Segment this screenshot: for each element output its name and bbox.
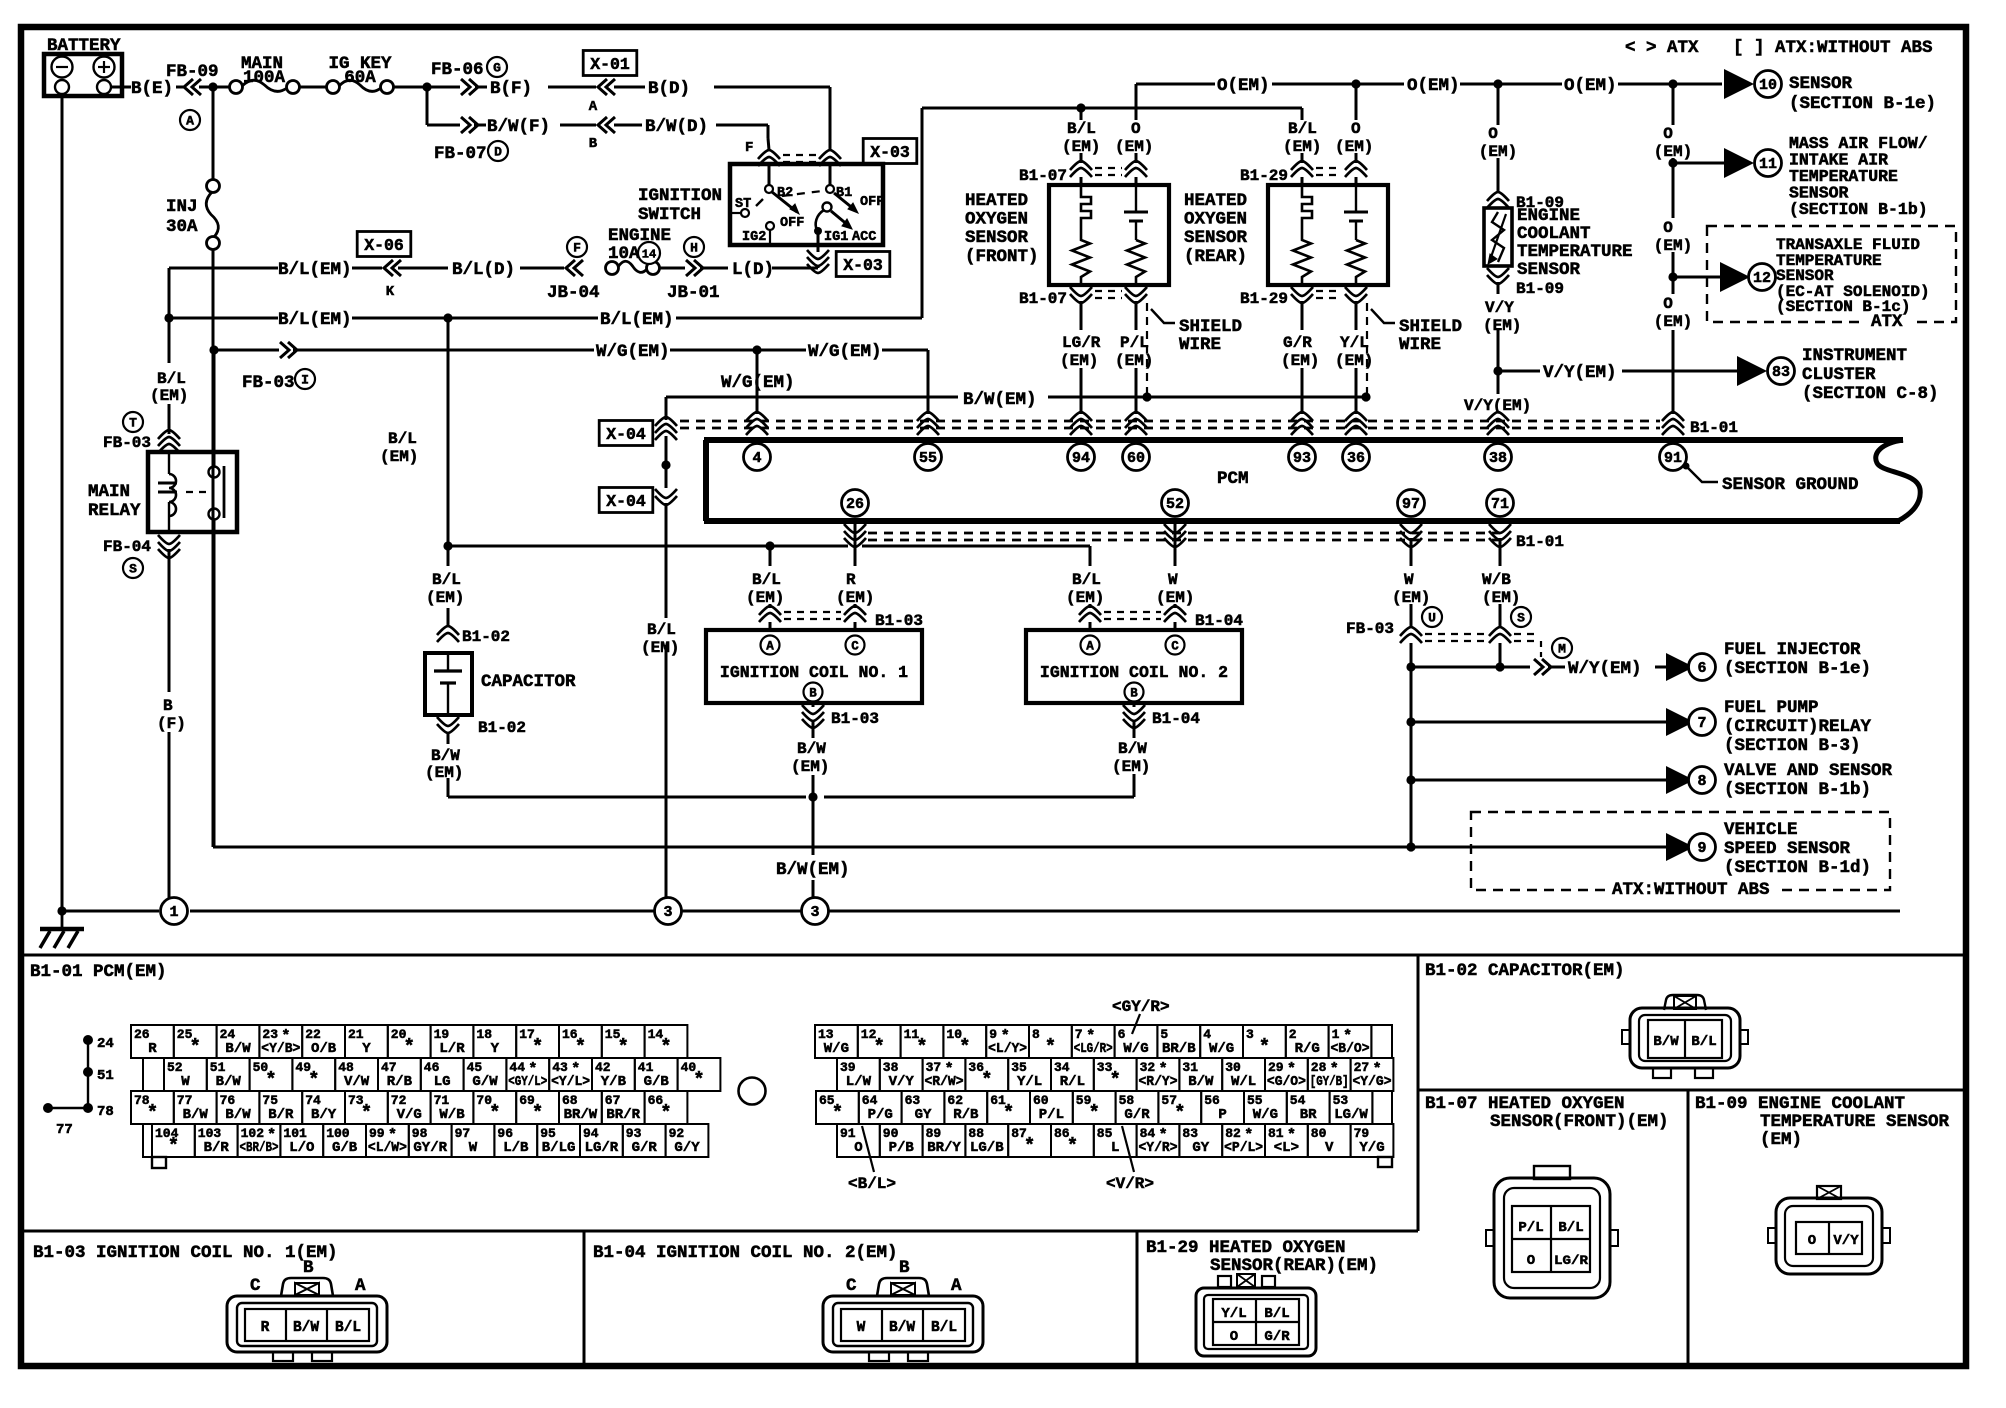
PCM pin chevron 60: [1125, 412, 1147, 435]
terminal G circle: [487, 57, 507, 77]
svg-text:SENSOR(REAR)(EM): SENSOR(REAR)(EM): [1210, 1256, 1378, 1276]
svg-text:*: *: [575, 1036, 586, 1058]
svg-text:B/L(EM): B/L(EM): [278, 260, 352, 280]
svg-text:W/Y(EM): W/Y(EM): [1568, 659, 1642, 679]
svg-text:X-04: X-04: [606, 425, 646, 444]
svg-text:7: 7: [1697, 715, 1706, 732]
terminal M circle: [1552, 638, 1572, 658]
junction dot FB-09: [208, 82, 217, 91]
wire V/Y pin38 drop: [1497, 371, 1500, 394]
connector FB-03 chevron: [280, 342, 297, 358]
svg-text:IGNITION: IGNITION: [638, 186, 722, 206]
wire ECT drop: [1497, 84, 1500, 125]
svg-text:71: 71: [434, 1093, 450, 1108]
svg-text:[GY/B]: [GY/B]: [1310, 1074, 1349, 1090]
wire branch to B/W row: [426, 87, 429, 125]
svg-text:SHIELD: SHIELD: [1179, 317, 1242, 337]
svg-text:3: 3: [810, 904, 819, 921]
wire capacitor drop: [447, 546, 450, 566]
wire B/W shield rail: [666, 396, 958, 399]
svg-text:O(EM): O(EM): [1217, 76, 1270, 96]
svg-text:L/B: L/B: [503, 1140, 529, 1156]
svg-text:L: L: [1111, 1140, 1119, 1156]
wire B(D): [614, 86, 645, 89]
svg-text:W/G: W/G: [1253, 1107, 1278, 1123]
svg-text:JB-04: JB-04: [547, 283, 600, 303]
svg-text:*: *: [489, 1102, 500, 1124]
svg-text:*: *: [265, 1069, 276, 1091]
PCM connector right row 2: [837, 1058, 880, 1091]
svg-text:LG: LG: [434, 1074, 451, 1090]
svg-text:(EM): (EM): [1060, 352, 1098, 370]
svg-text:A: A: [589, 99, 598, 115]
arrow speed: [1666, 833, 1694, 861]
HO2S rear sense resistor R: [1347, 240, 1365, 285]
PCM bottom bus bar: [704, 518, 1900, 524]
svg-text:SPEED SENSOR: SPEED SENSOR: [1724, 839, 1851, 859]
svg-text:(EM): (EM): [1335, 138, 1373, 156]
svg-text:14: 14: [642, 248, 656, 262]
B1-04 connector lock bowtie: [891, 1283, 915, 1295]
svg-text:B/L(EM): B/L(EM): [278, 310, 352, 330]
svg-text:96: 96: [497, 1126, 513, 1141]
svg-text:B/L: B/L: [752, 571, 781, 589]
HO2S rear sense resistor L: [1293, 225, 1311, 285]
svg-text:23: 23: [262, 1027, 278, 1042]
svg-text:C: C: [1171, 640, 1179, 654]
svg-text:*: *: [959, 1036, 970, 1058]
svg-text:(EM): (EM): [380, 448, 418, 466]
svg-text:*: *: [873, 1036, 884, 1058]
svg-text:<Y/B>: <Y/B>: [261, 1041, 300, 1057]
svg-text:B/L: B/L: [1067, 120, 1096, 138]
svg-text:<GY/L>: <GY/L>: [508, 1074, 547, 1090]
svg-text:B/L: B/L: [157, 370, 186, 388]
svg-text:C: C: [846, 1276, 857, 1296]
svg-text:11: 11: [1759, 156, 1777, 173]
terminal circle 83: [1768, 358, 1795, 385]
connector FB-06 chevron: [461, 79, 478, 95]
svg-text:A: A: [951, 1276, 962, 1296]
svg-text:ENGINE: ENGINE: [608, 226, 671, 246]
svg-text:9: 9: [1697, 840, 1706, 857]
svg-text:IG2: IG2: [742, 230, 766, 245]
svg-text:WIRE: WIRE: [1179, 335, 1221, 355]
svg-text:(SECTION B-1d): (SECTION B-1d): [1724, 858, 1871, 878]
svg-text:3: 3: [663, 904, 672, 921]
switch pin IG1: [814, 227, 822, 235]
PCM pin 91: [1660, 444, 1687, 471]
svg-text:B/L: B/L: [1691, 1034, 1716, 1050]
ignition coil 1 pin C: [846, 636, 865, 655]
svg-text:28: 28: [1311, 1060, 1327, 1075]
svg-text:88: 88: [968, 1126, 984, 1141]
svg-text:29: 29: [1268, 1060, 1284, 1075]
terminal 14 circle: [638, 242, 660, 264]
terminal H circle: [684, 237, 704, 257]
svg-text:B1-29: B1-29: [1240, 167, 1288, 185]
svg-text:82: 82: [1225, 1126, 1241, 1141]
svg-text:BR: BR: [1300, 1107, 1317, 1123]
B1-09 ears: [1768, 1228, 1776, 1243]
svg-text:10A: 10A: [608, 244, 640, 264]
svg-text:B/Y: B/Y: [311, 1107, 337, 1123]
svg-text:(EM): (EM): [150, 387, 188, 405]
junction dot X-04: [661, 460, 670, 469]
PCM pin 38: [1485, 444, 1512, 471]
svg-text:C: C: [250, 1276, 261, 1296]
svg-text:B/W: B/W: [225, 1107, 251, 1123]
B1-04 connector bottom tabs: [869, 1352, 889, 1361]
divider B1-02 bottom: [1418, 1089, 1963, 1092]
svg-text:56: 56: [1204, 1093, 1220, 1108]
wire valve: [1411, 779, 1666, 782]
connector X-06 chevron: [384, 260, 401, 276]
svg-text:24: 24: [220, 1027, 236, 1042]
B1-02 lock bowtie: [1674, 996, 1696, 1009]
svg-text:SENSOR GROUND: SENSOR GROUND: [1722, 475, 1859, 495]
svg-text:(EM): (EM): [1112, 758, 1150, 776]
svg-text:O(EM): O(EM): [1407, 76, 1460, 96]
connector X-01 B chevron: [598, 117, 615, 133]
HO2S rear top chevrons: [1291, 161, 1313, 177]
svg-text:W: W: [181, 1074, 190, 1090]
svg-text:B/W(EM): B/W(EM): [776, 860, 850, 880]
PCM connector outer boundary: [143, 1058, 164, 1091]
svg-text:46: 46: [424, 1060, 440, 1075]
svg-text:*: *: [660, 1036, 671, 1058]
svg-text:*: *: [832, 1102, 843, 1124]
PCM lower dashed bus: [868, 532, 1500, 535]
junction dot shield front: [1142, 392, 1151, 401]
svg-text:(EM): (EM): [1115, 138, 1153, 156]
HO2S front shield pointer: [1151, 309, 1175, 323]
svg-text:X-01: X-01: [590, 55, 630, 74]
svg-text:B/L: B/L: [1264, 1306, 1289, 1322]
junction dot WY1: [1406, 662, 1415, 671]
wire B(F) ground leg: [168, 549, 171, 692]
svg-text:ENGINE: ENGINE: [1517, 206, 1580, 226]
svg-text:*: *: [1067, 1135, 1078, 1157]
PCM connector right row 1: [815, 1025, 858, 1058]
fuse IG KEY 60A: [327, 81, 340, 94]
svg-text:<R/Y>: <R/Y>: [1139, 1074, 1178, 1090]
svg-text:B/L: B/L: [931, 1320, 957, 1336]
svg-text:B/W: B/W: [797, 740, 826, 758]
wire W/B vertical: [1499, 643, 1502, 667]
wire W/G pin55 corner: [927, 350, 930, 414]
svg-text:G/R: G/R: [1264, 1329, 1290, 1345]
junction dot W/G pin4: [752, 345, 761, 354]
wire O right v1: [1672, 84, 1675, 125]
svg-text:FB-03: FB-03: [242, 373, 295, 393]
terminal F circle: [567, 237, 587, 257]
PCM pin chevron 71: [1489, 524, 1511, 547]
connector B1-02 chevron top: [437, 626, 459, 642]
svg-text:*: *: [147, 1102, 158, 1124]
wire O right v2: [1672, 163, 1675, 218]
svg-text:O: O: [1527, 1253, 1535, 1269]
wire B/W(F): [427, 124, 460, 127]
svg-text:<B/L>: <B/L>: [848, 1175, 896, 1193]
svg-text:W: W: [1168, 571, 1178, 589]
svg-text:O: O: [1808, 1233, 1816, 1249]
svg-text:90: 90: [883, 1126, 899, 1141]
svg-text:*: *: [1174, 1102, 1185, 1124]
svg-text:TEMPERATURE SENSOR: TEMPERATURE SENSOR: [1760, 1112, 1950, 1132]
svg-text:B/R: B/R: [204, 1140, 230, 1156]
svg-text:R/L: R/L: [1060, 1074, 1085, 1090]
svg-text:<G/O>: <G/O>: [1267, 1074, 1306, 1090]
svg-text:55: 55: [1247, 1093, 1263, 1108]
B1-02 ears: [1622, 1030, 1630, 1044]
svg-text:O: O: [1488, 125, 1498, 143]
svg-text:68: 68: [562, 1093, 578, 1108]
svg-text:V/Y: V/Y: [1833, 1233, 1859, 1249]
connector M chevron: [1534, 659, 1551, 675]
svg-text:41: 41: [638, 1060, 654, 1075]
svg-text:(SECTION B-1c): (SECTION B-1c): [1776, 298, 1910, 316]
svg-text:26: 26: [134, 1027, 150, 1042]
wire W down: [1410, 667, 1413, 847]
relay contact bottom: [209, 509, 220, 520]
svg-text:*: *: [168, 1135, 179, 1157]
svg-text:<BR/B>: <BR/B>: [240, 1140, 279, 1156]
svg-text:A: A: [186, 114, 194, 129]
arrow valve: [1666, 766, 1694, 794]
PCM pin chevron 93: [1291, 412, 1313, 435]
svg-text:S: S: [129, 562, 137, 577]
svg-text:27: 27: [1354, 1060, 1370, 1075]
wire B/L(EM) corner drop: [168, 268, 171, 318]
svg-text:B/W(F): B/W(F): [487, 117, 550, 137]
connector FB-04 chevron: [158, 535, 180, 558]
svg-text:B/W: B/W: [889, 1320, 915, 1336]
svg-text:77: 77: [56, 1122, 73, 1138]
connector FB-03 chevron U: [1400, 627, 1422, 643]
wire W/G pin4 drop: [756, 350, 759, 414]
svg-text:W/G(EM): W/G(EM): [596, 342, 670, 362]
svg-text:W/L: W/L: [1231, 1074, 1256, 1090]
svg-text:X-03: X-03: [843, 256, 883, 275]
wire pin97 drop: [1410, 538, 1413, 552]
svg-text:(EM): (EM): [1654, 237, 1692, 255]
terminal circle 10: [1755, 71, 1782, 98]
svg-text:OXYGEN: OXYGEN: [965, 210, 1028, 230]
svg-text:77: 77: [177, 1093, 193, 1108]
svg-text:63: 63: [905, 1093, 921, 1108]
svg-text:D: D: [494, 145, 502, 160]
svg-text:(CIRCUIT)RELAY: (CIRCUIT)RELAY: [1724, 717, 1872, 737]
PCM pin chevron 4: [746, 412, 768, 435]
connector X-04 box bottom: [599, 488, 653, 513]
svg-text:Y/B: Y/B: [601, 1074, 627, 1090]
terminal I circle: [295, 369, 315, 389]
wire B(E) battery feed: [111, 86, 131, 89]
wire capacitor to BW: [447, 732, 450, 744]
svg-text:93: 93: [1293, 450, 1311, 467]
svg-text:B: B: [589, 136, 598, 152]
svg-text:(SECTION B-1e): (SECTION B-1e): [1789, 94, 1936, 114]
junction dot shield rear: [1361, 392, 1370, 401]
svg-text:R/B: R/B: [387, 1074, 413, 1090]
HO2S front output wires: [1080, 301, 1083, 330]
divider coils top: [21, 1230, 1418, 1233]
svg-text:O: O: [1230, 1329, 1238, 1345]
ignition coil 1 box: [706, 630, 922, 703]
svg-text:62: 62: [947, 1093, 963, 1108]
divider B1-07/B1-09: [1687, 1090, 1690, 1364]
svg-text:101: 101: [283, 1126, 307, 1141]
PCM connector left row 2: [164, 1058, 207, 1091]
svg-text:1: 1: [1332, 1027, 1340, 1042]
svg-text:M: M: [1558, 642, 1566, 657]
svg-text:Y/L: Y/L: [1017, 1074, 1042, 1090]
ignition coil 1 pin B: [804, 683, 823, 702]
svg-text:Y: Y: [491, 1041, 500, 1057]
svg-text:*: *: [1045, 1036, 1056, 1058]
B1-07 cells: [1512, 1206, 1590, 1272]
svg-text:71: 71: [1491, 496, 1509, 513]
svg-text:Y/G: Y/G: [1359, 1140, 1384, 1156]
divider B1-04/B1-29: [1136, 1231, 1139, 1364]
svg-text:R: R: [261, 1320, 270, 1336]
connector X-03 box top: [863, 139, 917, 164]
svg-text:19: 19: [434, 1027, 450, 1042]
svg-text:B1-03: B1-03: [875, 612, 923, 630]
fuse ENGINE 10A: [606, 262, 619, 275]
svg-text:P/L: P/L: [1039, 1107, 1064, 1123]
svg-text:L/R: L/R: [439, 1041, 465, 1057]
svg-text:B/W(D): B/W(D): [645, 117, 708, 137]
wire X-04 riser: [665, 397, 668, 420]
svg-text:B: B: [809, 687, 817, 701]
junction dot B(F): [422, 82, 431, 91]
wire relay contact feed: [213, 350, 216, 467]
wire B/L(EM) heater rail: [922, 107, 1302, 110]
svg-text:B/W: B/W: [225, 1041, 251, 1057]
junction dot coil1 B/L: [765, 541, 774, 550]
connector X-04 chevron top: [655, 417, 677, 440]
svg-text:B1-02 CAPACITOR(EM): B1-02 CAPACITOR(EM): [1425, 961, 1625, 981]
wire O right v3: [1672, 277, 1675, 294]
svg-text:B1-01: B1-01: [1516, 533, 1564, 551]
svg-text:(F): (F): [157, 715, 186, 733]
ground terminal 3a: [655, 898, 682, 925]
svg-text:<L/Y>: <L/Y>: [988, 1041, 1027, 1057]
HO2S front cell capacitor: [1135, 185, 1137, 212]
ignition coil 1 top chevrons: [759, 606, 781, 622]
svg-text:99: 99: [369, 1126, 385, 1141]
svg-text:L/O: L/O: [289, 1140, 314, 1156]
wire B/L(EM) top row: [169, 267, 278, 270]
wire B/L coil rail: [448, 545, 848, 548]
B1-09 connector shell: [1776, 1198, 1882, 1274]
svg-text:B/L(EM): B/L(EM): [600, 310, 674, 330]
svg-text:SENSOR: SENSOR: [1184, 228, 1248, 248]
svg-text:<L>: <L>: [1274, 1140, 1299, 1156]
svg-text:97: 97: [455, 1126, 471, 1141]
svg-text:BR/R: BR/R: [606, 1107, 640, 1123]
svg-text:9: 9: [989, 1027, 997, 1042]
PCM pin chevron 94: [1070, 412, 1092, 435]
wire fuel pump: [1411, 721, 1666, 724]
terminal circle 11: [1755, 150, 1782, 177]
svg-text:B1-04: B1-04: [1152, 710, 1200, 728]
svg-text:B1-04: B1-04: [1195, 612, 1243, 630]
bottom section divider: [21, 954, 1966, 957]
svg-text:LG/R: LG/R: [1554, 1253, 1588, 1268]
connector B1-02 chevron bottom: [437, 717, 459, 733]
switch arm B1-OFF: [834, 193, 855, 210]
svg-text:W/B: W/B: [1482, 571, 1511, 589]
connector X-01 box: [583, 51, 637, 76]
svg-text:B/L: B/L: [432, 571, 461, 589]
svg-text:I: I: [301, 373, 309, 388]
PCM top bus bar: [704, 437, 1903, 443]
svg-text:44: 44: [509, 1060, 525, 1075]
svg-text:100: 100: [326, 1126, 350, 1141]
svg-text:(EM): (EM): [1482, 589, 1520, 607]
label ATX: [1864, 313, 1912, 328]
ECT thermistor: [1492, 212, 1504, 262]
PCM pin chevron 91: [1662, 412, 1684, 435]
svg-text:V/Y: V/Y: [1485, 299, 1514, 317]
wire X-04 down: [665, 503, 668, 618]
svg-text:*: *: [1003, 1102, 1014, 1124]
pin legend: [83, 1035, 93, 1045]
B1-29 connector cells: [1213, 1299, 1299, 1345]
junction dot VY: [1493, 366, 1502, 375]
svg-text:P: P: [1218, 1107, 1226, 1123]
svg-text:(SECTION B-1b): (SECTION B-1b): [1724, 780, 1871, 800]
HO2S front sense resistor R: [1127, 240, 1145, 285]
wire pin71 drop: [1499, 538, 1502, 566]
svg-text:OXYGEN: OXYGEN: [1184, 210, 1247, 230]
PCM connector left row 3: [131, 1091, 174, 1124]
ground symbol: [61, 911, 64, 928]
arrow to sensor 10: [1724, 69, 1754, 99]
connector X-04 chevron bottom: [655, 489, 677, 505]
svg-text:10: 10: [1759, 77, 1777, 94]
svg-text:B/W: B/W: [183, 1107, 209, 1123]
svg-text:HEATED: HEATED: [965, 191, 1028, 211]
svg-text:B/L: B/L: [1288, 120, 1317, 138]
wire pin52 drop: [1174, 521, 1177, 566]
svg-text:95: 95: [540, 1126, 556, 1141]
junction dot speed: [1406, 842, 1415, 851]
PCM pin 97: [1398, 490, 1425, 517]
PCM pin 60: [1123, 444, 1150, 471]
ground rail wire: [62, 910, 159, 913]
HO2S front wire legs top: [1080, 108, 1083, 120]
svg-text:103: 103: [198, 1126, 222, 1141]
B1-03 connector cells: [245, 1309, 369, 1341]
switch pivot: [823, 203, 832, 212]
B1-03 connector bottom tabs: [273, 1352, 293, 1361]
wire rear O drop: [1355, 84, 1358, 120]
svg-text:94: 94: [1072, 450, 1090, 467]
svg-text:B1-02: B1-02: [462, 628, 510, 646]
svg-text:(EM): (EM): [1281, 352, 1319, 370]
svg-text:G/B: G/B: [644, 1074, 670, 1090]
terminal U circle: [1422, 607, 1442, 627]
switch pin IG2: [766, 222, 774, 230]
PCM right brace: [1876, 440, 1921, 521]
switch arm B2-OFF: [772, 192, 797, 212]
svg-text:36: 36: [1347, 450, 1365, 467]
capacitor box: [425, 653, 472, 715]
